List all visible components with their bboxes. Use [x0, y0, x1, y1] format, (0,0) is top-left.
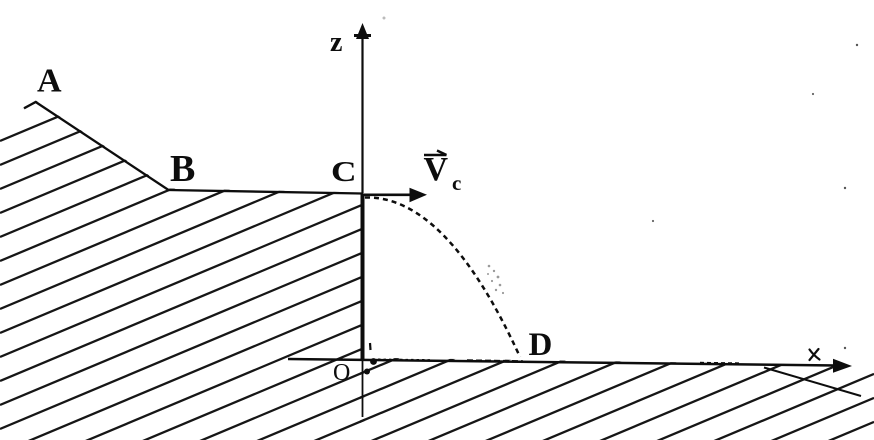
svg-text:C: C: [331, 155, 357, 187]
svg-text:A: A: [37, 63, 62, 100]
svg-text:B: B: [170, 148, 195, 190]
svg-text:c: c: [452, 171, 461, 195]
svg-text:O: O: [333, 360, 350, 386]
svg-text:z: z: [330, 27, 342, 58]
svg-text:V: V: [424, 151, 449, 188]
svg-text:D: D: [529, 327, 553, 363]
